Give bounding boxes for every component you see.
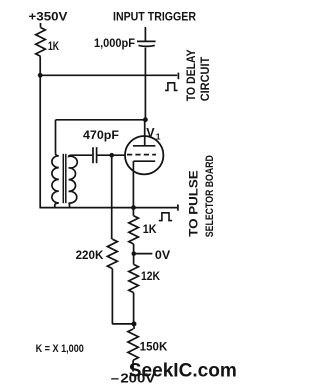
svg-text:INPUT TRIGGER: INPUT TRIGGER — [113, 10, 196, 24]
svg-text:+350V: +350V — [29, 12, 68, 24]
svg-text:220K: 220K — [76, 250, 104, 262]
svg-text:150K: 150K — [140, 342, 168, 354]
svg-text:SeekIC.com: SeekIC.com — [129, 359, 237, 381]
svg-text:TO DELAY: TO DELAY — [186, 49, 198, 101]
svg-text:12K: 12K — [141, 271, 161, 283]
svg-text:SELECTOR BOARD: SELECTOR BOARD — [204, 155, 216, 237]
svg-text:1K: 1K — [48, 41, 60, 53]
svg-text:1,000pF: 1,000pF — [94, 38, 135, 50]
svg-text:V: V — [146, 126, 155, 140]
svg-text:0V: 0V — [155, 248, 170, 262]
svg-text:1: 1 — [156, 132, 161, 142]
svg-text:CIRCUIT: CIRCUIT — [200, 57, 212, 102]
svg-text:1K: 1K — [143, 222, 157, 236]
svg-text:470pF: 470pF — [83, 130, 119, 142]
svg-text:TO PULSE: TO PULSE — [188, 170, 200, 237]
svg-text:K = X 1,000: K = X 1,000 — [36, 343, 84, 355]
